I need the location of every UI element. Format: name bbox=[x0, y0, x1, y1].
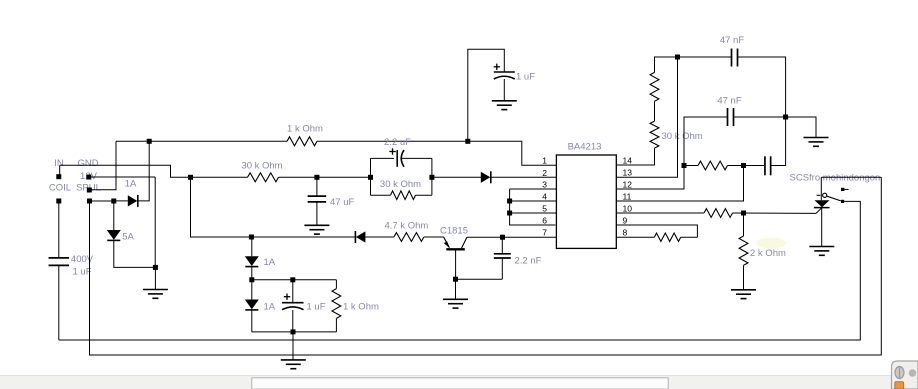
wire SPUL link bbox=[88, 141, 117, 189]
wire row3 c bbox=[771, 117, 786, 166]
svg-text:47 uF: 47 uF bbox=[330, 197, 354, 208]
resistor row3 bbox=[698, 161, 728, 170]
node IN pad bbox=[56, 174, 61, 179]
wire 47uF to gnd bbox=[316, 202, 318, 225]
wire GND row A bbox=[60, 165, 191, 177]
svg-text:1A: 1A bbox=[264, 302, 276, 313]
plus sign C top bbox=[494, 64, 500, 70]
wire row2 to gnd bbox=[786, 117, 816, 138]
wire diode to pin2 bbox=[491, 176, 557, 178]
wire RC top left bbox=[371, 157, 395, 159]
wire 47uF drop bbox=[316, 177, 318, 196]
svg-text:2.2 nF: 2.2 nF bbox=[515, 256, 542, 267]
svg-text:30 k Ohm: 30 k Ohm bbox=[662, 131, 703, 142]
wire RC to diode bbox=[432, 176, 481, 178]
wire anode top bbox=[821, 176, 881, 178]
capacitor 47 uF bbox=[308, 196, 327, 202]
wire block bottom rail bbox=[252, 331, 337, 333]
svg-text:12: 12 bbox=[623, 180, 633, 190]
wire 2.2nF top bbox=[501, 237, 503, 254]
svg-text:47 nF: 47 nF bbox=[720, 35, 744, 46]
svg-text:13: 13 bbox=[623, 168, 633, 178]
capacitor 2.2 uF bbox=[397, 150, 404, 167]
wire cap branch bottom bbox=[292, 310, 294, 332]
wire RC bottom left bbox=[371, 194, 391, 196]
svg-text:30 k Ohm: 30 k Ohm bbox=[241, 161, 282, 172]
svg-text:10: 10 bbox=[623, 204, 633, 214]
node J16 bbox=[783, 115, 788, 120]
wire IN pad stub bbox=[59, 165, 61, 176]
resistor 30k upper bbox=[650, 72, 659, 101]
highlight smudge bbox=[756, 238, 786, 249]
resistor pin8 bbox=[654, 233, 680, 241]
wire pin3 bbox=[510, 188, 557, 190]
node bus pin4 bbox=[507, 199, 512, 204]
wire row3 b bbox=[728, 165, 765, 167]
diode 1A bottom second bbox=[245, 300, 259, 310]
node 13V pad bbox=[86, 175, 91, 180]
wire 13V row B bbox=[89, 176, 155, 178]
switch pole bbox=[817, 193, 841, 201]
wire RC right node bbox=[431, 158, 433, 195]
svg-text:14: 14 bbox=[623, 156, 633, 166]
wire emitter row bbox=[467, 236, 557, 238]
wire pin8 b bbox=[681, 236, 698, 238]
svg-text:30 k Ohm: 30 k Ohm bbox=[380, 179, 421, 190]
wire cap2 right bbox=[734, 116, 786, 118]
wire pin8 a bbox=[616, 236, 654, 238]
wire diode1 to j bbox=[251, 267, 253, 280]
wire cathode down bbox=[821, 208, 823, 247]
wire junction to gnd bbox=[154, 267, 156, 289]
svg-text:11: 11 bbox=[623, 192, 632, 202]
wire row237 c bbox=[424, 236, 444, 238]
wire base down bbox=[455, 249, 457, 279]
capacitor 1 uF top bbox=[494, 72, 515, 79]
transistor Q1 C1815 bbox=[444, 237, 467, 249]
wire 5A to junction bbox=[114, 241, 156, 268]
tray icon 2 bbox=[909, 369, 917, 377]
node J7 bbox=[500, 235, 505, 240]
wire COIL drop bbox=[58, 201, 60, 257]
wire 30k row b bbox=[279, 176, 371, 178]
svg-text:6: 6 bbox=[542, 216, 547, 226]
node J18 bbox=[741, 163, 746, 168]
svg-text:GND: GND bbox=[77, 158, 98, 169]
node J1 bbox=[147, 139, 152, 144]
node pad P6 bbox=[111, 199, 116, 204]
ground block bbox=[281, 360, 306, 369]
ground transistor bbox=[443, 299, 468, 308]
svg-text:5A: 5A bbox=[122, 232, 134, 243]
capacitor 400V 1 uF bbox=[49, 258, 70, 266]
svg-text:4.7 k Ohm: 4.7 k Ohm bbox=[384, 221, 428, 232]
node J4 bbox=[314, 175, 319, 180]
wire pad row bbox=[90, 200, 114, 202]
node RC left bbox=[368, 175, 373, 180]
wire res branch bottom bbox=[335, 318, 337, 332]
switch contact upper bbox=[841, 188, 844, 191]
scrollbar thumb bbox=[252, 378, 668, 389]
wire cap branch top bbox=[292, 280, 294, 303]
svg-text:9: 9 bbox=[623, 216, 628, 226]
svg-text:1A: 1A bbox=[264, 257, 276, 268]
wire diode2 bottom bbox=[251, 310, 253, 332]
diode 5A bbox=[107, 230, 121, 240]
switch contact lower bbox=[841, 200, 844, 203]
wire cap1 right bbox=[738, 57, 786, 117]
wire 400V cap down bbox=[58, 265, 60, 340]
svg-text:1 k Ohm: 1 k Ohm bbox=[287, 124, 323, 135]
wire J3 drop bbox=[191, 177, 252, 237]
svg-text:1 uF: 1 uF bbox=[516, 72, 535, 83]
svg-text:400V: 400V bbox=[71, 254, 94, 265]
wire top rail bbox=[116, 140, 287, 142]
svg-text:IN: IN bbox=[54, 158, 64, 169]
wire RC top right bbox=[400, 157, 432, 159]
resistor 1 k Ohm bottom bbox=[332, 289, 341, 319]
node J12 bbox=[249, 277, 254, 282]
plus sign 2.2uF bbox=[389, 148, 395, 154]
capacitor 2.2 nF bbox=[494, 254, 511, 258]
capacitor row3 bbox=[765, 156, 771, 175]
svg-text:2.2 uF: 2.2 uF bbox=[384, 137, 411, 148]
resistor 4.7 k Ohm bbox=[394, 233, 424, 242]
svg-text:1 uF: 1 uF bbox=[72, 267, 91, 278]
node 5A junction bbox=[153, 265, 158, 270]
wire RC left node bbox=[370, 158, 372, 195]
wire pin11 bbox=[616, 166, 743, 202]
diode 1A bottom first bbox=[245, 256, 259, 266]
wire 2k bottom bbox=[743, 265, 745, 290]
node COIL pad bbox=[56, 199, 61, 204]
ground top cap bbox=[492, 101, 517, 110]
capacitor 1 uF bottom bbox=[282, 303, 304, 310]
tray panel bbox=[892, 361, 918, 389]
wire switch to bottom rail bbox=[59, 201, 861, 340]
svg-text:SCSfro mohindongon: SCSfro mohindongon bbox=[790, 173, 881, 184]
svg-text:7: 7 bbox=[542, 228, 547, 238]
wire block top bbox=[251, 237, 253, 256]
wire block mid rail bbox=[252, 279, 337, 281]
svg-text:COIL: COIL bbox=[49, 183, 71, 194]
capacitor 47 nF top bbox=[732, 49, 738, 67]
plus sign 1uF bottom bbox=[284, 294, 290, 300]
resistor 1 k Ohm bbox=[287, 137, 317, 146]
wire chain top bbox=[655, 57, 732, 72]
svg-text:2 k Ohm: 2 k Ohm bbox=[750, 248, 786, 259]
svg-text:1 uF: 1 uF bbox=[307, 302, 326, 313]
wire 2.2nF bottom bbox=[501, 258, 503, 279]
tray icon 1 bbox=[895, 366, 904, 379]
svg-text:1A: 1A bbox=[125, 179, 137, 190]
diode row237 bbox=[355, 231, 365, 243]
wire 30k row a bbox=[191, 176, 248, 178]
ground 2k bbox=[731, 290, 756, 299]
wire contact stub bbox=[844, 188, 848, 190]
resistor 2 k Ohm bbox=[739, 236, 748, 265]
wire RC bottom right bbox=[416, 194, 432, 196]
wire P6 to diode bbox=[114, 200, 128, 202]
wire pins 3-6 bus bbox=[510, 189, 556, 225]
wire res branch top bbox=[335, 280, 337, 289]
node bus pin5 bbox=[507, 211, 512, 216]
wire row3 a bbox=[684, 165, 698, 167]
wire row237 b bbox=[365, 236, 394, 238]
wire pin4 bbox=[510, 200, 557, 202]
node J10 bbox=[249, 235, 254, 240]
wire block gnd drop bbox=[292, 332, 294, 360]
resistor 30 k Ohm bbox=[248, 173, 279, 182]
wire 13V drop bbox=[154, 177, 156, 267]
node J17 bbox=[682, 163, 687, 168]
svg-text:1: 1 bbox=[542, 156, 547, 166]
scrollbar track bbox=[0, 376, 918, 389]
svg-text:C1815: C1815 bbox=[440, 226, 468, 237]
wire to tr gnd bbox=[455, 279, 457, 299]
svg-text:8: 8 bbox=[623, 228, 628, 238]
tray icon orange bbox=[895, 382, 904, 389]
ground 5A branch bbox=[143, 290, 168, 299]
node J19 bbox=[741, 211, 746, 216]
ground row2 bbox=[804, 138, 829, 147]
diode 1A top bbox=[128, 195, 138, 207]
wire res gap bbox=[654, 101, 656, 121]
wire SCR gate bbox=[816, 208, 822, 214]
node SPUL pad bbox=[87, 188, 92, 193]
node J11 bbox=[453, 277, 458, 282]
node RC right bbox=[429, 175, 434, 180]
wire top cap branch bbox=[468, 49, 505, 141]
resistor 30k lower bbox=[650, 121, 659, 148]
svg-text:BA4213: BA4213 bbox=[568, 142, 602, 153]
wire pin5 bbox=[510, 212, 557, 214]
SCR thyristor bbox=[814, 200, 830, 207]
wire base gnd link bbox=[456, 278, 503, 280]
wire 2k top bbox=[743, 213, 745, 236]
wire J1 drop bbox=[139, 141, 150, 201]
diode pin2 bbox=[481, 171, 491, 183]
resistor pin10 bbox=[704, 209, 733, 218]
node J3 bbox=[188, 175, 193, 180]
ground SCR bbox=[809, 247, 834, 256]
wire pin12 bbox=[616, 117, 727, 189]
node J14 bbox=[291, 329, 296, 334]
svg-text:2: 2 bbox=[542, 168, 547, 178]
node J2 bbox=[465, 139, 470, 144]
svg-text:1 k Ohm: 1 k Ohm bbox=[343, 302, 379, 313]
wire pin9 bbox=[616, 225, 697, 237]
wire row237 a bbox=[251, 236, 355, 238]
wire right drop bbox=[90, 177, 882, 355]
node pad P5 bbox=[87, 199, 92, 204]
svg-text:4: 4 bbox=[542, 192, 547, 202]
svg-text:3: 3 bbox=[542, 180, 547, 190]
wire pin10 a bbox=[616, 212, 704, 214]
wire pin10 b bbox=[733, 212, 817, 214]
wire anode bbox=[820, 177, 822, 200]
wire top rail right bbox=[317, 141, 556, 165]
svg-text:5: 5 bbox=[542, 204, 547, 214]
wire pin14 bbox=[616, 148, 654, 165]
wire top cap to gnd bbox=[503, 79, 505, 101]
svg-text:47 nF: 47 nF bbox=[717, 96, 741, 107]
node J15 bbox=[675, 55, 680, 60]
resistor 30 k Ohm box bbox=[391, 191, 416, 200]
node J13 bbox=[290, 277, 295, 282]
wire diode2 top bbox=[251, 280, 253, 300]
op-amp U1 BA4213 body bbox=[556, 155, 616, 248]
wire 5A drop bbox=[113, 201, 115, 230]
wire J15 to pin13 bbox=[616, 57, 677, 177]
ground 47uF bbox=[304, 225, 329, 234]
capacitor 47 nF second bbox=[728, 108, 734, 126]
